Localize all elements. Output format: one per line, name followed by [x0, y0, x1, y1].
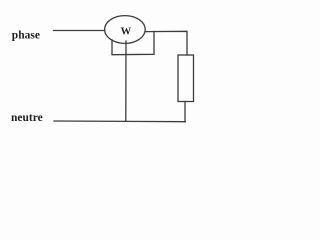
wire load to neutre — [184, 102, 186, 122]
svg-text:phase: phase — [12, 30, 40, 42]
wire voltage-coil bracket — [112, 32, 154, 55]
svg-text:W: W — [121, 26, 132, 37]
svg-text:neutre: neutre — [11, 112, 43, 124]
wire voltage coil to neutre — [125, 41, 127, 121]
wire phase — [54, 30, 105, 32]
wire W1 output to load — [145, 31, 187, 55]
wattmeter W1 — [105, 16, 146, 44]
wire neutre — [54, 120, 185, 123]
resistor R load — [178, 55, 194, 102]
